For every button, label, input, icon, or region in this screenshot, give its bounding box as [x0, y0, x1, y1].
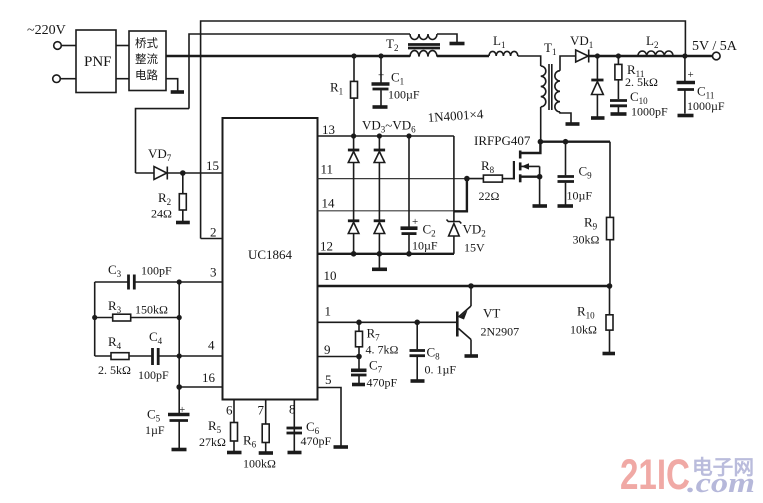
svg-text:100pF: 100pF	[138, 368, 169, 382]
ground	[172, 448, 187, 452]
node R11 junction	[616, 53, 621, 58]
svg-text:10kΩ: 10kΩ	[570, 323, 597, 337]
resistor R4	[95, 355, 111, 357]
svg-text:1µF: 1µF	[145, 423, 165, 437]
ground	[566, 122, 580, 126]
svg-text:.com: .com	[687, 468, 755, 499]
svg-text:1: 1	[325, 304, 332, 319]
ground	[288, 451, 302, 455]
svg-text:11: 11	[321, 162, 334, 177]
svg-text:0. 1µF: 0. 1µF	[425, 363, 457, 377]
wire U-link to pin11 rail	[454, 179, 467, 212]
pin 1 wire	[318, 321, 457, 323]
ground	[171, 90, 184, 94]
ground	[591, 116, 605, 120]
ground	[373, 105, 388, 109]
resistor R10	[609, 286, 611, 315]
svg-text:3: 3	[210, 265, 217, 280]
svg-text:+: +	[179, 404, 185, 416]
node drain	[538, 139, 544, 145]
pin 14 rail	[318, 210, 454, 212]
node C2 bottom	[406, 251, 412, 257]
wire	[437, 34, 457, 42]
pin 10 rail	[318, 285, 610, 287]
svg-text:桥式: 桥式	[135, 37, 158, 50]
svg-text:470pF: 470pF	[367, 376, 398, 390]
wire pin13 rail corner down	[453, 136, 455, 211]
capacitor C2 electrolytic	[408, 136, 410, 227]
svg-text:7: 7	[258, 403, 265, 418]
MOSFET IRFPG407	[513, 161, 515, 180]
node VD4	[377, 133, 382, 138]
svg-text:15V: 15V	[464, 241, 485, 255]
PNF filter block	[76, 30, 116, 93]
wire secondary top to output line	[560, 56, 576, 71]
diode VD7	[136, 109, 190, 173]
transformer T2 top winding	[410, 34, 437, 40]
svg-text:10: 10	[324, 268, 337, 283]
svg-text:2. 5kΩ: 2. 5kΩ	[625, 75, 658, 89]
resistor R9	[609, 142, 611, 218]
wire	[116, 45, 129, 47]
pin 13 rail	[318, 135, 454, 137]
svg-text:IRFPG407: IRFPG407	[474, 133, 531, 148]
svg-text:100µF: 100µF	[388, 88, 420, 102]
node pin4 junction	[177, 353, 182, 358]
pin 8 wire	[293, 400, 295, 452]
svg-text:22Ω: 22Ω	[479, 189, 500, 203]
svg-text:5: 5	[325, 372, 332, 387]
ground	[352, 383, 365, 387]
diode VD1	[576, 50, 589, 62]
svg-text:100kΩ: 100kΩ	[243, 457, 276, 471]
resistor R2	[182, 173, 184, 194]
svg-text:5V / 5A: 5V / 5A	[692, 39, 738, 54]
transformer T2 core	[408, 43, 440, 46]
pin 6 wire	[233, 400, 235, 452]
capacitor C10	[610, 99, 627, 102]
ground	[450, 42, 465, 46]
svg-text:10µF: 10µF	[567, 189, 593, 203]
node VD6 bottom	[377, 251, 383, 257]
ground	[334, 445, 349, 449]
wire	[61, 45, 76, 47]
svg-text:2: 2	[210, 225, 217, 240]
node VD5 bottom	[351, 251, 357, 257]
svg-text:13: 13	[322, 122, 335, 137]
capacitor C8	[416, 322, 418, 349]
svg-text:9: 9	[324, 342, 331, 357]
resistor R5	[231, 423, 238, 442]
svg-text:8: 8	[289, 402, 296, 417]
ground	[259, 451, 273, 455]
wire drain rail	[540, 140, 610, 142]
IC UC1864	[223, 118, 318, 400]
wire junction vertical	[178, 282, 180, 413]
capacitor C6	[287, 427, 303, 430]
svg-text:1000µF: 1000µF	[687, 99, 725, 113]
node VD1 output junction	[595, 53, 600, 58]
capacitor C7	[358, 357, 360, 370]
ground	[411, 379, 425, 383]
svg-text:14: 14	[322, 196, 336, 211]
input terminal bottom	[53, 75, 61, 83]
wire secondary bottom	[560, 112, 571, 123]
svg-text:150kΩ: 150kΩ	[135, 303, 168, 317]
ground	[558, 204, 574, 208]
ground	[533, 204, 548, 208]
wire ground stub below VD6	[378, 254, 380, 268]
node R3 right	[177, 315, 182, 320]
wire	[60, 78, 76, 80]
svg-text:VD3~VD6: VD3~VD6	[362, 118, 416, 135]
wire aux line y34	[189, 34, 410, 109]
node C11 junction	[682, 53, 687, 58]
ground	[611, 112, 627, 116]
input terminal top	[54, 42, 62, 50]
resistor R11	[617, 56, 619, 64]
ground	[176, 221, 190, 225]
zener diode VD2	[453, 211, 455, 221]
wire T1 primary to drain rail	[540, 107, 542, 142]
inductor L2	[638, 51, 673, 56]
svg-text:21IC: 21IC	[620, 451, 690, 499]
node C9 top	[563, 139, 569, 145]
output terminal 5V/5A	[713, 52, 721, 60]
svg-text:PNF: PNF	[84, 54, 112, 70]
wire L1 to T1 primary	[518, 56, 541, 66]
svg-text:+: +	[688, 69, 694, 81]
bridge rectifier block	[129, 31, 166, 91]
transformer T1 core	[548, 64, 550, 110]
pin 5 wire	[318, 388, 342, 447]
wire DC bus to L1	[437, 55, 489, 57]
pin 2 wire	[201, 238, 223, 240]
pin 11 rail	[318, 178, 467, 180]
diode VD4	[378, 136, 380, 149]
node C8 top	[414, 320, 420, 326]
node pin11/R8 junction	[464, 176, 470, 182]
svg-text:100pF: 100pF	[141, 264, 172, 278]
transformer T2 bottom winding	[410, 51, 437, 57]
wire bridge ground stub	[166, 79, 178, 91]
inductor L1	[489, 51, 518, 56]
svg-text:470pF: 470pF	[301, 434, 332, 448]
svg-text:6: 6	[226, 403, 233, 418]
svg-text:4: 4	[208, 338, 215, 353]
svg-text:2. 5kΩ: 2. 5kΩ	[98, 363, 131, 377]
transistor VT 2N2907	[468, 283, 474, 289]
pin 7 wire	[265, 400, 267, 453]
svg-text:12: 12	[320, 239, 333, 254]
capacitor C11 electrolytic	[684, 56, 686, 81]
capacitor C9	[565, 142, 567, 176]
node R9/R10 junction	[607, 283, 613, 289]
node C1 top	[378, 53, 383, 58]
resistor R8	[467, 178, 484, 180]
svg-text:电路: 电路	[135, 68, 158, 82]
capacitor C1 electrolytic	[380, 56, 382, 83]
resistor R1	[353, 56, 355, 81]
pin 16 wire	[179, 386, 222, 388]
svg-text:10µF: 10µF	[412, 239, 438, 253]
resistor R7	[358, 322, 360, 331]
pin 9 wire	[318, 356, 360, 358]
transformer T1 secondary winding	[555, 71, 560, 112]
transformer T1 primary winding	[541, 66, 546, 107]
svg-text:~220V: ~220V	[27, 23, 66, 38]
diode VD6	[374, 219, 385, 222]
node C2 top	[406, 133, 411, 138]
freewheel diode (to ground at VD1 output)	[596, 56, 598, 79]
node R7 top	[356, 320, 362, 326]
node pin3 junction	[177, 279, 182, 284]
wire DC bus from bridge	[166, 55, 410, 57]
svg-text:2N2907: 2N2907	[481, 325, 520, 339]
svg-text:4. 7kΩ: 4. 7kΩ	[366, 343, 399, 357]
svg-text:15: 15	[206, 158, 219, 173]
ground	[227, 451, 242, 455]
wire left vertical of RC network	[94, 282, 96, 356]
node VD7/R2 junction	[180, 170, 186, 176]
svg-text:30kΩ: 30kΩ	[573, 233, 600, 247]
node R1/VD3	[351, 133, 356, 138]
svg-text:16: 16	[202, 370, 216, 385]
ground	[603, 352, 616, 356]
svg-text:VT: VT	[483, 306, 500, 321]
resistor R3	[95, 317, 113, 319]
svg-text:27kΩ: 27kΩ	[199, 435, 226, 449]
ground	[372, 267, 387, 271]
pin 3 wire / C3 branch	[135, 281, 223, 283]
wire output line	[589, 55, 713, 57]
svg-text:+: +	[412, 216, 418, 228]
capacitor C4	[151, 348, 154, 365]
node R3 left	[92, 315, 97, 320]
svg-text:24Ω: 24Ω	[151, 207, 172, 221]
diode VD5	[348, 219, 359, 222]
svg-text:1000pF: 1000pF	[631, 105, 668, 119]
resistor R6	[262, 424, 269, 443]
capacitor C5 electrolytic	[168, 413, 190, 417]
pin 12 rail	[318, 253, 455, 255]
svg-text:整流: 整流	[135, 52, 158, 66]
wire feedback top line	[201, 21, 686, 239]
diode VD3	[353, 136, 355, 149]
svg-text:UC1864: UC1864	[248, 247, 293, 262]
ground	[678, 114, 694, 118]
wire	[116, 78, 129, 80]
node R1 top	[351, 53, 356, 58]
svg-text:+: +	[378, 70, 384, 82]
node pin16 junction	[176, 384, 182, 390]
capacitor C3	[95, 281, 128, 283]
node pin9/C7 junction	[356, 354, 362, 360]
